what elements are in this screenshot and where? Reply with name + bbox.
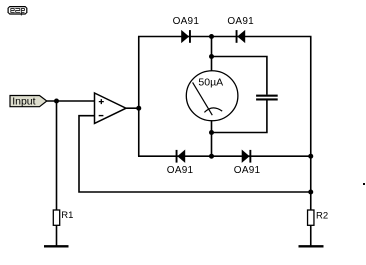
wire bottom diode bus <box>138 155 312 157</box>
resistor R2 <box>308 210 314 225</box>
node op-amp output junction <box>136 106 141 111</box>
diode D2 OA91 (top right) <box>236 30 245 43</box>
diode D1 OA91 (top left) <box>182 30 191 43</box>
wire op-amp minus feedback left and bottom <box>79 116 311 192</box>
wire R1 to ground <box>56 225 58 245</box>
diode D3 OA91 (bottom left) <box>176 150 185 163</box>
svg-text:OA91: OA91 <box>227 16 254 27</box>
wire meter bottom <box>211 120 213 156</box>
wire R2 to ground <box>310 225 312 245</box>
diode D4 OA91 (bottom right) <box>242 150 251 163</box>
op-amp U1 <box>95 93 127 123</box>
wire right column <box>310 37 312 211</box>
wire input junction down to R1 <box>56 101 58 210</box>
svg-text:OA91: OA91 <box>173 16 200 27</box>
svg-text:R2: R2 <box>316 211 328 222</box>
svg-text:50µA: 50µA <box>198 77 223 89</box>
resistor R1 <box>53 210 59 225</box>
meter M1 50uA <box>186 71 238 121</box>
node input junction <box>54 99 59 104</box>
wire top junction down to meter <box>211 37 213 72</box>
node bottom center junction <box>209 154 214 159</box>
ground (R2) <box>299 245 324 247</box>
node meter bottom tap <box>209 130 214 135</box>
input tag "Input" <box>10 96 47 108</box>
capacitor C1 <box>256 95 278 101</box>
node feedback right junction <box>308 190 313 195</box>
wire meter bottom to capacitor <box>212 100 267 132</box>
svg-text:R1: R1 <box>61 210 73 221</box>
node top center junction <box>209 34 214 39</box>
node bottom bus right junction <box>308 154 313 159</box>
node meter top tap <box>209 54 214 59</box>
wire meter top to capacitor <box>212 57 267 95</box>
wire input to op-amp + <box>47 100 95 102</box>
stray dot artifact <box>363 183 365 185</box>
wire left column <box>138 37 140 157</box>
ground (R1) <box>44 245 69 247</box>
wire top bus <box>138 36 312 38</box>
svg-text:Input: Input <box>12 96 35 108</box>
ESP logo <box>8 6 28 16</box>
wire op-amp output <box>126 107 139 109</box>
svg-text:OA91: OA91 <box>234 165 261 176</box>
svg-text:OA91: OA91 <box>167 165 194 176</box>
